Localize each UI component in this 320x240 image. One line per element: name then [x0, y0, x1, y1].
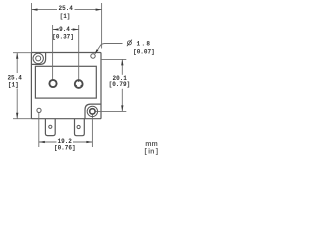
arrowhead 19.2 right: [86, 141, 92, 143]
arrowhead 25.4 top left: [32, 8, 38, 10]
dimension 9.4 extension line right (to right rivet): [78, 25, 80, 82]
dimension 25.4 top: dimension line: [32, 9, 58, 11]
mounting hole top-left inner: [36, 56, 41, 61]
tab hole right: [77, 125, 80, 128]
svg-text:[1]: [1]: [60, 13, 71, 20]
mounting hole top-left outer: [33, 53, 43, 63]
dimension 19.2 bottom: dimension line: [39, 141, 57, 143]
dimension 25.4 left: dimension line: [16, 53, 18, 73]
dimension 19.2 extension line right: [91, 111, 93, 147]
dimension 19.2 extension line left: [38, 111, 40, 147]
arrowhead 9.4 right: [73, 28, 79, 30]
dimension 20.1 right: extension line top: [101, 58, 126, 60]
svg-text:1.8: 1.8: [137, 40, 152, 47]
dimension 25.4 top: extension line left: [31, 3, 33, 53]
dimension 20.1 extension line bottom: [92, 110, 126, 112]
vent hole top-right (diameter 1.8): [91, 54, 95, 58]
dimension 25.4 top: extension line right: [101, 3, 103, 49]
svg-text:25.4: 25.4: [58, 5, 73, 12]
svg-text:[0.76]: [0.76]: [54, 145, 76, 152]
pilot hole bottom-left: [37, 108, 41, 112]
terminal tab left: [45, 119, 55, 136]
inner face rectangle: [35, 66, 96, 98]
leader line diameter 1.8: [95, 44, 123, 54]
mounting hole bottom-right outer: [87, 106, 97, 116]
svg-text:[0.07]: [0.07]: [133, 49, 155, 56]
dimension 25.4 left: extension line top: [13, 52, 31, 54]
dimension 9.4 top: dimension line: [53, 29, 59, 31]
arrowhead 9.4 left: [53, 28, 59, 30]
arrowhead 19.2 left: [39, 141, 45, 143]
svg-text:[1]: [1]: [8, 81, 19, 88]
svg-text:9.4: 9.4: [59, 26, 70, 33]
arrowhead 20.1 bottom: [121, 105, 123, 111]
dimension 9.4 extension line left (to left rivet): [52, 25, 54, 82]
diameter symbol of label 1.8: [127, 40, 132, 47]
body outline: [31, 53, 101, 119]
mounting pad bottom-right: [85, 104, 101, 119]
rivet terminal left: [49, 80, 56, 87]
mounting hole bottom-right inner: [90, 109, 95, 114]
arrowhead 25.4 left bottom: [16, 113, 18, 119]
svg-text:[0.37]: [0.37]: [52, 34, 74, 41]
arrowhead 20.1 top: [121, 59, 123, 65]
svg-text:[0.79]: [0.79]: [109, 81, 131, 88]
arrowhead 25.4 top right: [96, 8, 102, 10]
terminal tab right: [75, 119, 85, 136]
mounting pad top-left: [31, 53, 45, 65]
arrowhead 25.4 left top: [16, 53, 18, 59]
arrowhead leader 1.8: [95, 49, 99, 54]
dimension 20.1 right: dimension line: [121, 59, 123, 74]
tab hole left: [49, 125, 52, 128]
rivet terminal right (knurled): [75, 80, 83, 88]
dimension 25.4 left: extension line bottom: [13, 118, 31, 120]
svg-text:mm: mm: [145, 141, 157, 148]
svg-text:[ in ]: [ in ]: [144, 148, 158, 155]
